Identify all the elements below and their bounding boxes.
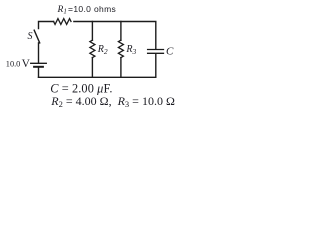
resistor R2 bbox=[90, 40, 95, 57]
wire top-left segment bbox=[39, 22, 54, 29]
svg-text:S: S bbox=[28, 31, 33, 42]
battery long plate bbox=[31, 62, 47, 64]
resistor R3 bbox=[118, 40, 123, 57]
wire switch to battery bbox=[38, 43, 40, 63]
svg-text:R3: R3 bbox=[125, 44, 136, 56]
capacitor C bottom plate bbox=[148, 52, 164, 54]
wire top-right segment bbox=[74, 22, 156, 49]
wire battery to bottom bbox=[38, 68, 40, 78]
resistor R1 bbox=[54, 19, 71, 25]
svg-text:R1: R1 bbox=[57, 5, 67, 16]
wire R3 bottom lead bbox=[120, 58, 122, 78]
wire R2 bottom lead bbox=[91, 58, 93, 78]
svg-text:=10.0 ohms: =10.0 ohms bbox=[68, 4, 116, 14]
svg-text:C: C bbox=[166, 46, 174, 58]
svg-text:R2: R2 bbox=[97, 44, 108, 56]
capacitor C top plate bbox=[148, 49, 164, 51]
svg-text:V: V bbox=[22, 58, 31, 70]
battery short plate bbox=[34, 66, 43, 68]
wire capacitor to bottom bbox=[155, 54, 157, 77]
switch S blade bbox=[34, 30, 40, 43]
svg-text:10.0: 10.0 bbox=[6, 60, 21, 69]
svg-text:R2 = 4.00 Ω,R3 = 10.0 Ω: R2 = 4.00 Ω,R3 = 10.0 Ω bbox=[50, 94, 175, 109]
wire bottom bbox=[39, 76, 156, 78]
wire R3 top lead bbox=[120, 22, 122, 41]
wire R2 top lead bbox=[91, 22, 93, 41]
